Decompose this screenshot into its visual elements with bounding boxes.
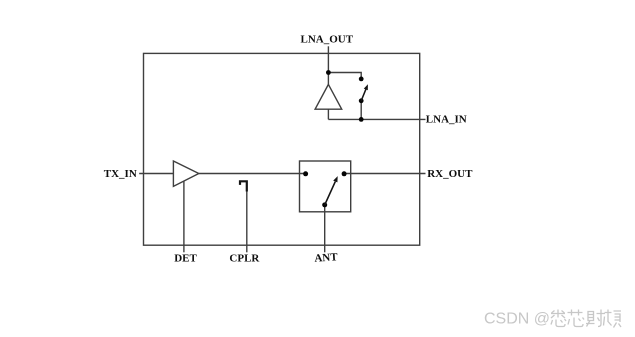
wire RX_OUT (344, 173, 425, 175)
node junction above LNA amp (326, 70, 331, 75)
watermark glyph Xi (悉) (551, 310, 566, 327)
wire TX_IN input (139, 173, 174, 175)
svg-text:TX_IN: TX_IN (104, 168, 137, 180)
watermark glyph Pin (频) (604, 310, 622, 328)
svg-text:ANT: ANT (314, 251, 339, 264)
wire junction to bypass switch top contact (328, 73, 361, 79)
wire bypass switch pole to LNA_IN line (360, 101, 362, 120)
wire PA output to antenna switch (199, 173, 306, 175)
svg-text:LNA_OUT: LNA_OUT (301, 34, 354, 46)
wire LNA_OUT stub down to LNA amp apex (327, 46, 329, 85)
antenna switch RX contact (right) (342, 171, 347, 176)
svg-text:CPLR: CPLR (229, 253, 260, 265)
wire LNA amp input from LNA_IN line (327, 109, 329, 119)
module outline box (144, 53, 420, 245)
antenna switch arm with arrowhead (325, 176, 338, 205)
bypass switch top contact (359, 77, 364, 82)
antenna switch pole contact (bottom, ANT) (322, 202, 327, 207)
watermark glyph Xin (芯) (568, 310, 585, 327)
wire CPLR tap (246, 191, 248, 253)
bypass switch arm with arrowhead (361, 84, 368, 101)
coupler CPLR symbol (hook) (240, 181, 247, 191)
amplifier LNA (triangle pointing up) (315, 84, 342, 109)
node bypass switch bottom on LNA_IN line (359, 117, 364, 122)
wire LNA_IN horizontal line (328, 118, 425, 120)
bypass switch pole contact (359, 98, 364, 103)
watermark glyph She (射) (586, 310, 605, 327)
svg-text:LNA_IN: LNA_IN (426, 114, 467, 126)
svg-text:DET: DET (174, 253, 197, 265)
svg-text:RX_OUT: RX_OUT (427, 168, 473, 180)
antenna switch TX contact (left) (303, 171, 308, 176)
wire DET tap (183, 181, 185, 252)
amplifier TX PA (triangle pointing right) (173, 161, 198, 186)
svg-text:CSDN @: CSDN @ (484, 311, 550, 328)
switch box SPDT antenna switch (300, 161, 351, 212)
wire ANT (324, 205, 326, 252)
